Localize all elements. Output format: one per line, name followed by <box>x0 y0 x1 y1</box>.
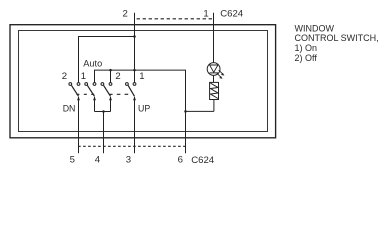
resistor coil zigzag <box>210 83 218 98</box>
contact circle 4 <box>93 83 96 86</box>
svg-text:CONTROL SWITCH,: CONTROL SWITCH, <box>295 33 379 43</box>
svg-text:1) On: 1) On <box>295 43 318 53</box>
svg-text:DN: DN <box>63 104 76 114</box>
svg-text:UP: UP <box>138 104 150 114</box>
LED to resistor stem <box>213 75 215 82</box>
svg-text:4: 4 <box>95 155 101 166</box>
LED emission arrow 1 <box>219 70 225 76</box>
svg-text:Auto: Auto <box>83 59 102 69</box>
mechanical link DN dashed <box>76 93 94 95</box>
connector C624 top dashed line <box>137 18 214 20</box>
wire auto lever right <box>110 97 112 112</box>
contact circle 2 <box>77 83 80 86</box>
LED indicator circle <box>207 63 220 76</box>
svg-text:1: 1 <box>81 71 86 82</box>
node junction pin 6 branch <box>184 110 187 113</box>
contact circle 5 <box>101 83 104 86</box>
LED cathode bar <box>210 72 219 74</box>
wire drop to contact 6 <box>110 70 112 82</box>
contact circle 3 <box>85 83 88 86</box>
svg-text:1: 1 <box>139 71 144 82</box>
auto lever arm right <box>104 85 111 96</box>
svg-text:5: 5 <box>70 155 75 166</box>
svg-text:C624: C624 <box>191 155 215 166</box>
auto lever left arrow <box>93 96 96 100</box>
svg-text:WINDOW: WINDOW <box>295 23 335 33</box>
wire to pin 4 <box>103 112 105 154</box>
mechanical link UP dashed <box>109 93 131 95</box>
outer case box <box>10 25 276 138</box>
wire common node 1 <box>95 70 186 153</box>
wire lever to pin 3 <box>134 97 136 153</box>
LED emission arrow 2 <box>217 73 223 79</box>
contact circle 1 <box>69 83 72 86</box>
svg-text:2) Off: 2) Off <box>295 53 318 63</box>
svg-text:1: 1 <box>203 9 208 20</box>
callout text block <box>295 23 379 62</box>
svg-text:C624: C624 <box>220 9 244 20</box>
svg-text:2: 2 <box>115 71 120 82</box>
svg-text:2: 2 <box>123 9 128 20</box>
inner case box <box>19 31 268 132</box>
wire auto lever left <box>94 97 96 112</box>
svg-text:6: 6 <box>178 155 183 166</box>
node junction at contact 6 drop <box>109 69 112 72</box>
DN lever arrow <box>77 96 80 100</box>
auto lever right arrow <box>109 96 112 100</box>
DN lever arm <box>72 85 79 96</box>
contact circle 7 <box>126 83 129 86</box>
LED triangle <box>210 65 218 72</box>
contact circle 8 <box>133 83 136 86</box>
auto levers joining bracket <box>95 111 111 113</box>
connector C624 bottom dashed line <box>78 145 185 147</box>
UP lever arrow <box>133 96 136 100</box>
svg-text:2: 2 <box>62 71 67 82</box>
auto lever arm left <box>87 85 94 96</box>
resistor bottom stem <box>213 99 215 111</box>
node junction bracket/pin2 <box>133 35 136 38</box>
wire pin 2 top <box>134 13 136 83</box>
resistor box <box>210 82 219 99</box>
svg-text:3: 3 <box>126 155 131 166</box>
wire lever to pin 5 <box>78 97 80 153</box>
contact circle 6 <box>109 83 112 86</box>
UP lever arm <box>128 85 134 96</box>
wire pin 1 top to LED <box>213 13 215 63</box>
node junction common/pin2 wire <box>133 69 136 72</box>
node junction pin 4 stem <box>102 110 105 113</box>
wire to resistor bottom <box>186 110 214 112</box>
Auto bracket wire <box>79 37 135 83</box>
